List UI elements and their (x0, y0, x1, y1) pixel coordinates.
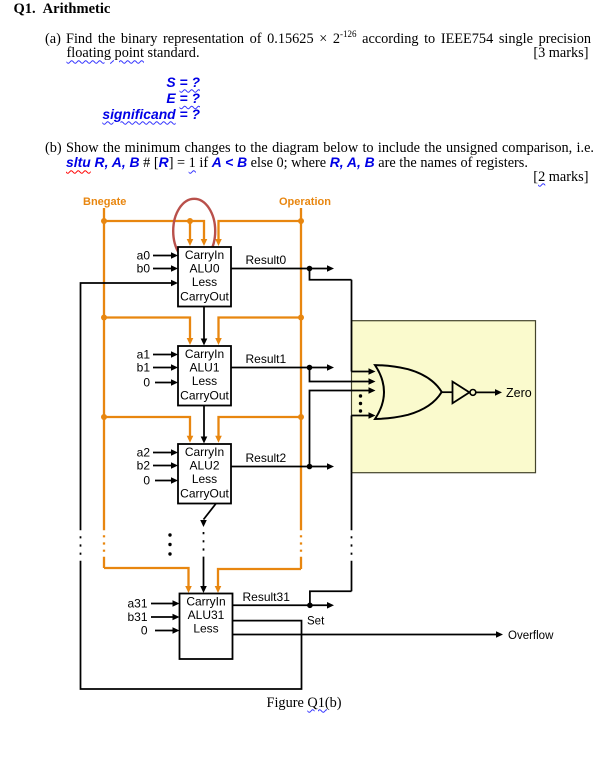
svg-text:Less: Less (192, 374, 217, 388)
svg-text:Result31: Result31 (243, 590, 291, 604)
paragraph (b) line 2 (66, 155, 528, 170)
Overflow output wire (233, 634, 497, 636)
ALU2 box (178, 444, 231, 504)
svg-text:Less: Less (193, 622, 218, 636)
svg-text:0: 0 (141, 624, 148, 638)
junction dot on orange wire (187, 218, 193, 224)
paragraph (a) line 2 (67, 46, 200, 60)
svg-text:Operation: Operation (279, 196, 331, 208)
NOT gate (inverter) (442, 391, 453, 393)
svg-text:Zero: Zero (506, 386, 532, 400)
svg-text:a1: a1 (137, 348, 151, 362)
svg-text:b2: b2 (137, 459, 151, 473)
zero block bottom input (352, 415, 370, 417)
orange wire row 2 left drop (104, 417, 190, 439)
svg-text:Less: Less (192, 275, 217, 289)
Result1 feed to zero block (310, 368, 370, 382)
orange wire row 2 right drop (219, 417, 302, 439)
carry wire ALU1 to ALU2 (203, 406, 205, 440)
svg-text:CarryIn: CarryIn (185, 248, 224, 262)
zero-detect block background (352, 321, 536, 473)
svg-text:a0: a0 (137, 249, 151, 263)
svg-text:CarryOut: CarryOut (180, 388, 229, 402)
orange wire: Bnegate to ALU0 CarryIn (two drops) (104, 221, 204, 242)
svg-text:CarryIn: CarryIn (185, 347, 224, 361)
svg-text:Set: Set (307, 616, 325, 628)
svg-text:a31: a31 (127, 597, 147, 611)
OR gate ellipsis dots (359, 394, 362, 412)
svg-text:a2: a2 (137, 446, 151, 460)
title (14, 2, 111, 16)
ALU31 box (180, 594, 233, 660)
red annotation ellipse (173, 199, 215, 263)
Set output wire (loops to ALU0 Less) (81, 283, 302, 689)
orange wire: Operation to ALU0 (219, 221, 302, 242)
svg-text:CarryIn: CarryIn (186, 594, 225, 608)
paragraph (a) line 1 (45, 32, 61, 46)
carry wire ALU2 downward (204, 504, 217, 520)
figure caption (267, 696, 342, 710)
svg-text:Overflow: Overflow (508, 630, 554, 642)
svg-text:Result0: Result0 (246, 253, 287, 267)
svg-text:CarryOut: CarryOut (180, 289, 229, 303)
svg-text:Result2: Result2 (246, 451, 287, 465)
Result0 feed to zero block (310, 269, 352, 280)
svg-text:0: 0 (143, 473, 150, 487)
svg-text:ALU2: ALU2 (189, 458, 219, 472)
Bnegate rail (left orange vertical) (103, 208, 105, 528)
svg-text:0: 0 (143, 375, 150, 389)
svg-text:ALU0: ALU0 (189, 261, 219, 275)
carry wire into ALU31 (203, 558, 205, 589)
OR gate U1 (375, 365, 442, 419)
svg-text:b1: b1 (137, 361, 151, 375)
ellipsis dots (input column) (168, 533, 171, 555)
ALU1 box (178, 346, 231, 406)
svg-text:b0: b0 (137, 262, 151, 276)
svg-text:b31: b31 (127, 610, 147, 624)
paragraph (b) line 1 (45, 141, 62, 155)
Result2 feed to zero block (310, 391, 370, 467)
Set loop dotted segment (79, 528, 81, 562)
Zero output wire (476, 391, 496, 393)
carry chain dotted (203, 532, 205, 558)
blue answers (0, 76, 200, 89)
svg-text:Less: Less (192, 472, 217, 486)
svg-text:ALU1: ALU1 (189, 360, 219, 374)
svg-text:CarryIn: CarryIn (185, 445, 224, 459)
svg-text:Bnegate: Bnegate (83, 196, 126, 208)
svg-text:ALU31: ALU31 (188, 608, 225, 622)
svg-text:CarryOut: CarryOut (180, 486, 229, 500)
orange wire row 1 left drop (104, 318, 190, 342)
orange wire to ALU31 left (104, 568, 189, 589)
Operation rail (right orange vertical) (300, 208, 302, 528)
svg-text:Result1: Result1 (246, 352, 287, 366)
ALU0 box (178, 247, 231, 307)
carry wire ALU0 to ALU1 (203, 307, 205, 342)
orange wire to ALU31 right (218, 569, 301, 589)
Result31 feed riser (351, 416, 353, 473)
orange wire row 1 right drop (219, 318, 302, 342)
